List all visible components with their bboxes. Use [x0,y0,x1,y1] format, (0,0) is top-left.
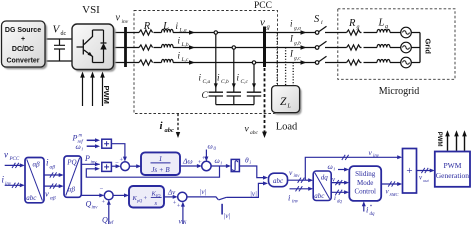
svg-text:Load: Load [276,122,298,133]
svg-text:αβ: αβ [50,165,56,171]
svg-text:+: + [198,159,202,166]
wire i_dq into SMC [331,191,347,193]
svg-text:v: v [245,125,250,135]
dashed box Microgrid [338,9,455,80]
svg-text:+: + [406,165,412,177]
svg-text:S: S [314,14,320,25]
svg-text:i: i [288,193,291,203]
svg-text:|v|: |v| [250,190,257,198]
wire omega_0 into sum2 [205,150,207,160]
svg-text:abc: abc [273,177,284,185]
node PCC / v_g measurement bar [263,27,266,68]
svg-text:αβ: αβ [50,196,56,202]
summing junction sumQ2 [178,192,187,201]
wire phase A [114,32,421,34]
svg-text:g,a: g,a [294,26,301,32]
svg-text:C,b: C,b [221,79,229,85]
switch S_i phase B [315,46,319,50]
current arrow i_C,c [252,83,256,88]
measurement arrow v_abc (dashed) [264,68,266,133]
svg-text:ref: ref [108,221,114,224]
svg-text:i: i [178,51,181,61]
measurement arrow i_abc (dashed) [177,114,179,134]
wire delta-v to sumQ2 [164,196,176,198]
svg-text:L,a: L,a [179,28,187,34]
svg-text:i: i [290,19,293,29]
svg-text:i: i [160,120,164,132]
svg-text:v: v [260,17,265,29]
wire divider1 to sum1 [111,144,125,160]
svg-text:+: + [177,203,181,210]
block K_pQ + K_IQ/s [129,186,164,208]
capacitor C phase c [247,92,261,96]
svg-text:+: + [21,36,25,43]
junction node phase A [214,31,217,34]
svg-text:v: v [116,13,121,24]
DC link capacitor [54,39,65,61]
svg-text:inv: inv [373,154,380,159]
grid inductor Lg phase B [377,44,390,47]
svg-text:+: + [120,157,124,164]
svg-text:inv: inv [292,200,299,205]
Load dotted tap phase B [285,48,287,86]
capacitor C phase a [209,92,223,96]
droop switch blade [219,197,227,200]
grid inductor Lg phase A [377,29,390,32]
wire v_dq into SMC [331,182,347,184]
svg-text:v: v [369,148,373,157]
wire v_out to PWM Generation [417,170,433,172]
wire v_SMC to + box [381,183,400,185]
load block Z_L [272,86,300,113]
DG source box shadow [4,23,48,69]
junction node phase C [252,61,255,64]
resistor R phase B [139,45,153,50]
svg-text:PWM: PWM [443,161,461,170]
svg-text:abc: abc [250,130,259,136]
svg-text:IQ: IQ [155,193,160,198]
grid resistor Rg phase A [347,30,362,35]
svg-text:Js + B: Js + B [151,166,170,174]
VSI box shadow [74,26,116,72]
svg-text:ω: ω [215,156,220,165]
svg-text:ω: ω [76,142,81,151]
svg-text:PWM: PWM [436,132,442,147]
svg-text:Control: Control [355,188,376,196]
inductor L phase A [162,29,174,32]
svg-text:PCC: PCC [254,1,272,11]
junction node phase B [232,46,235,49]
wire omega_i stub into SMC [338,169,347,171]
svg-text:L,b: L,b [181,42,189,48]
svg-text:dq: dq [321,174,329,182]
svg-text:θ: θ [245,156,249,165]
svg-text:R: R [348,18,356,29]
wire i*_dq into SMC from below [363,203,365,211]
wire i_inv stub into dq block [290,188,312,190]
AC source G3 [401,57,412,68]
resistor R phase C [139,60,153,65]
svg-text:−: − [115,160,119,167]
svg-text:dc: dc [61,31,67,37]
DC link wires [45,39,72,61]
capacitor common bus wire [216,104,254,106]
svg-text:L: L [162,21,169,32]
Q loop: wire Q_inv to sumQ1 [81,194,102,196]
svg-text:Generation: Generation [436,171,470,180]
svg-text:Δv: Δv [167,189,176,197]
svg-text:R: R [143,21,151,32]
svg-text:SMC: SMC [390,192,400,197]
grid resistor Rg phase C [347,60,362,65]
block Sliding Mode Control [349,166,381,201]
wire v_PCC input [5,164,23,166]
svg-text:inv: inv [91,161,98,166]
grid bus bar [419,33,421,63]
svg-text:i: i [178,36,181,46]
PWM gate arrows into VSI [83,76,103,107]
block + summing [403,149,417,194]
wire sumQ1 to PI block [113,194,127,196]
svg-text:i: i [250,161,252,166]
wire omega feedback to divider2 [86,166,219,177]
summing junction sum2 [202,161,211,170]
svg-text:|v|: |v| [200,188,207,196]
svg-text:i: i [237,73,240,83]
block PQ power calculation [64,156,81,197]
current arrow i_L,b [189,45,195,50]
svg-text:Mode: Mode [357,179,373,187]
wire delta-omega to sum2 [180,165,200,167]
svg-text:out: out [423,178,430,183]
svg-text:inv: inv [5,182,12,187]
AC source G1 [401,27,412,38]
inverter block U1 VSI [72,24,114,70]
block DG Source + DC/DC Converter [2,21,46,67]
svg-text:Sliding: Sliding [355,170,376,178]
svg-text:ω: ω [208,142,213,151]
svg-text:C,a: C,a [203,79,211,85]
current arrow i_g,b [301,45,307,50]
svg-text:g: g [267,24,271,31]
block PWM Generation [435,152,470,187]
svg-text:v: v [289,168,293,177]
svg-text:dq: dq [336,181,341,186]
svg-text:i: i [334,168,336,173]
svg-text:dq: dq [370,212,376,217]
current arrow i_C,a [214,83,218,88]
wire v_N into sumQ2 [182,204,184,224]
wire P_ref input to divider [87,139,98,141]
IGBT Q1 inside VSI [77,30,93,63]
svg-text:L: L [378,18,385,29]
svg-text:abc: abc [26,194,37,202]
svg-text:+: + [102,199,106,206]
svg-text:i: i [217,73,220,83]
switch lower contact |v| [221,204,223,215]
svg-text:C: C [202,91,209,101]
wire Q_ref into sumQ1 [108,202,110,224]
svg-text:V: V [53,24,61,36]
AC source G2 [401,42,412,53]
divider box 2 (P_inv/omega) [102,162,112,171]
svg-text:+: + [202,155,206,162]
inductor L phase C [162,59,174,62]
svg-text:m: m [79,134,83,139]
svg-text:DC/DC: DC/DC [12,46,34,53]
dashed box LC filter [134,11,278,114]
svg-text:αβ: αβ [33,161,41,169]
inductor L phase B [162,44,174,47]
svg-text:VSI: VSI [82,4,100,16]
current arrow i_L,c [189,60,195,65]
capacitor branch a wire [215,33,217,105]
svg-text:Grid: Grid [424,39,433,55]
capacitor C phase b [227,92,241,96]
svg-text:Z: Z [280,96,287,108]
svg-text:v: v [4,150,8,160]
resistor R phase A [139,30,153,35]
wire omega_i input to divider [87,145,98,147]
wire v_inv into dq block [305,179,311,181]
switch S_i phase C [315,61,319,65]
grid resistor Rg phase B [347,45,362,50]
svg-text:g: g [357,25,360,31]
svg-text:P: P [84,154,90,163]
svg-text:Δω: Δω [182,157,193,166]
wire phase B [114,47,421,49]
current arrow i_C,b [232,83,236,88]
svg-text:g,b: g,b [294,41,301,47]
wire omega_i to integrator [211,165,229,167]
current arrow i_L,a [189,30,195,35]
wire P_inv to divider2 [81,163,99,165]
svg-text:abc: abc [314,192,325,200]
wire i_inv input [5,184,23,186]
block dq/abc transform [313,171,331,201]
svg-text:L: L [287,104,292,110]
capacitor branch c wire [253,63,255,105]
svg-text:inv: inv [122,19,129,25]
svg-text:C,c: C,c [241,79,249,85]
svg-text:Converter: Converter [6,58,39,65]
integrator block [231,159,239,171]
svg-text:PCC: PCC [9,157,20,162]
divider box 1 (P_ref/omega) [102,139,112,148]
grid inductor Lg phase C [377,59,390,62]
svg-text:|v|: |v| [224,212,231,220]
svg-text:v: v [179,217,183,225]
svg-text:inv: inv [92,206,99,211]
node v_inv measurement bar [124,27,127,67]
svg-text:*: * [370,205,373,210]
wire |v| to abc block [227,183,266,197]
svg-text:i: i [199,73,202,83]
svg-text:+: + [144,195,148,202]
Load dotted tap phase A [276,33,278,86]
summing junction sumQ1 [104,191,113,200]
block abc to alpha-beta transform [25,158,44,203]
svg-text:αβ: αβ [68,186,76,194]
svg-text:i: i [176,21,179,31]
label integrator [233,161,238,171]
svg-text:Microgrid: Microgrid [379,86,420,97]
current arrow i_g,a [301,30,307,35]
svg-text:i: i [334,194,336,202]
svg-text:i: i [321,20,323,26]
svg-text:PQ: PQ [66,159,76,167]
svg-text:L,c: L,c [181,57,189,63]
svg-text:v: v [45,189,49,199]
svg-text:DG Source: DG Source [5,27,41,34]
current arrow i_g,c [301,60,307,65]
svg-text:g,c: g,c [294,56,301,62]
Z_L box shadow [274,88,302,115]
wire theta_i to abc block [239,166,265,178]
capacitor branch b wire [233,48,235,105]
svg-text:PWM: PWM [102,86,111,104]
block 1/(Js+B) [141,152,180,175]
block abc reference generator [269,173,288,187]
diode D1 anti-parallel [101,30,107,63]
svg-text:inv: inv [294,174,301,179]
svg-text:g: g [385,24,388,30]
svg-text:abc: abc [165,127,175,134]
wire sumQ2 to droop switch [187,197,218,200]
Load dotted tap phase C [292,63,294,86]
PWM arrows above PWM Generation block [448,135,465,151]
svg-text:0: 0 [214,147,217,152]
IGBT top/bottom rails [93,30,104,63]
wire v_alphabeta [44,185,62,187]
wire sum1 to swing block [130,165,140,167]
svg-text:−: − [100,186,104,193]
svg-text:i: i [82,148,84,153]
svg-text:dq: dq [337,200,342,205]
wire phase C [114,62,421,64]
svg-text:1: 1 [159,154,163,163]
summing junction sum1 [111,165,118,167]
svg-text:pQ: pQ [136,198,142,203]
svg-text:N: N [182,221,187,224]
wire v_inv from abc: branch up to + box [288,157,401,180]
switch S_i phase A [315,31,319,35]
wire i_alphabeta [44,174,62,176]
svg-text:ω: ω [328,162,333,171]
